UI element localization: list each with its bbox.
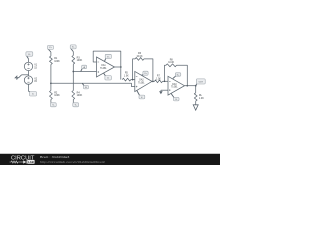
svg-text:100K: 100K: [77, 59, 83, 62]
svg-text:10.0K: 10.0K: [136, 56, 142, 58]
svg-text:1.0K: 1.0K: [156, 78, 161, 80]
svg-text:LAB: LAB: [28, 160, 34, 164]
svg-text:V-: V-: [141, 97, 143, 99]
svg-text:OA2: OA2: [139, 79, 144, 82]
svg-text:100K: 100K: [54, 94, 60, 97]
svg-text:http://circuitlab.com/c/31220d: http://circuitlab.com/c/31220da3/brett/: [40, 160, 105, 164]
svg-text:100K: 100K: [77, 94, 83, 97]
svg-text:V-: V-: [75, 105, 77, 107]
svg-text:V-: V-: [32, 94, 34, 96]
svg-text:V-: V-: [52, 105, 54, 107]
svg-text:TL081: TL081: [171, 87, 178, 89]
svg-text:100K: 100K: [54, 60, 60, 63]
svg-text:10.0K: 10.0K: [168, 62, 174, 64]
svg-text:1.0K: 1.0K: [199, 97, 204, 100]
svg-text:V-: V-: [107, 78, 109, 80]
svg-text:OA1: OA1: [101, 64, 106, 67]
svg-text:Brett : 31220da3: Brett : 31220da3: [40, 155, 70, 159]
svg-text:V-: V-: [175, 99, 177, 101]
svg-text:TL081: TL081: [100, 68, 107, 70]
svg-text:1.0K: 1.0K: [124, 75, 129, 77]
svg-text:OA3: OA3: [172, 83, 177, 86]
svg-text:OUT: OUT: [199, 81, 204, 83]
svg-text:TL081: TL081: [138, 82, 145, 84]
